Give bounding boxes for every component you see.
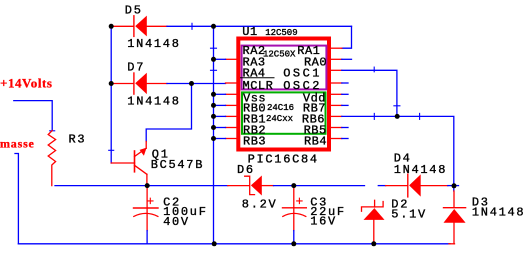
svg-text:U1: U1 [242, 25, 257, 39]
svg-text:5.1V: 5.1V [391, 207, 427, 221]
svg-text:+14Volts: +14Volts [0, 75, 53, 90]
svg-text:40V: 40V [163, 215, 190, 229]
wire D5 cathode to RA1 [167, 25, 352, 27]
svg-text:12C509: 12C509 [265, 28, 297, 38]
svg-text:1N4148: 1N4148 [394, 163, 447, 177]
node RA3 [211, 57, 216, 62]
diode D6 zener 8.2V [228, 163, 278, 212]
wire tick [373, 67, 375, 72]
diode D2 zener 5.1V [362, 197, 427, 244]
pin RB1 (pin 7) [226, 115, 237, 117]
pin RB7 (pin 13) [331, 104, 342, 106]
wire OSC1 net [342, 70, 397, 116]
wire RB3 to bus [214, 138, 226, 140]
wire +14Volts net [14, 101, 52, 131]
wire D4 to node [448, 185, 459, 187]
node RB1 [211, 114, 216, 119]
node D7 cathode [189, 81, 194, 86]
node RB2 [211, 125, 216, 130]
wire RB7 stub [342, 104, 348, 106]
svg-text:24C16: 24C16 [267, 103, 294, 113]
svg-text:8.2V: 8.2V [242, 197, 278, 211]
pin RA0 (pin 17) [331, 58, 342, 60]
node gnd D2 [371, 241, 376, 246]
wire RA3 to bus [214, 58, 226, 60]
svg-text:R3: R3 [69, 133, 87, 147]
capacitor C2 100uF 40V [134, 187, 208, 231]
wire OSC2 stub [342, 82, 348, 84]
wire tick [50, 130, 55, 132]
node gnd bus [212, 241, 217, 246]
pin RB2 (pin 8) [226, 127, 237, 129]
wire RA0 stub [342, 58, 352, 60]
capacitor C3 22uF 16V [283, 187, 346, 231]
pin Vdd (pin 14) [331, 93, 342, 95]
U1 section A box [242, 46, 327, 90]
svg-text:D5: D5 [125, 3, 143, 17]
op-amp U1 PIC16C84 outer box [238, 39, 329, 150]
svg-text:16V: 16V [310, 215, 337, 229]
pin RB3 (pin 9) [226, 138, 237, 140]
node D7 anode [109, 81, 114, 86]
node RB3 [211, 136, 216, 141]
node RB6 junction [395, 114, 400, 119]
wire emitter rail to D6 [147, 185, 228, 187]
svg-text:RB4: RB4 [304, 135, 327, 149]
svg-text:BC547B: BC547B [151, 158, 204, 172]
pin OSC1 (pin 16) [331, 69, 342, 71]
wire Vss to bus [214, 93, 226, 95]
wire C3 to ground rail [293, 231, 295, 244]
wire Q1 collector net [146, 84, 191, 142]
wire C2 to ground rail [146, 231, 148, 244]
wire D5/D7 anode column [110, 26, 112, 163]
pin RB6 (pin 12) [331, 115, 342, 117]
wire tick [373, 113, 375, 119]
pin RB0 (pin 6) [226, 104, 237, 106]
ground rail [18, 243, 450, 245]
resistor R3 [48, 131, 55, 186]
wire D7 cathode to MCLR pin [167, 83, 226, 85]
wire tick [109, 149, 114, 151]
node bus top [211, 24, 216, 29]
wire R3 to emitter rail [55, 185, 147, 187]
svg-text:PIC16C84: PIC16C84 [248, 153, 319, 167]
svg-text:D7: D7 [127, 61, 145, 75]
transistor Q1 BC547B [111, 148, 204, 186]
wire left pin bus column [213, 26, 215, 244]
node RB0 [211, 103, 216, 108]
svg-text:masse: masse [0, 137, 35, 151]
wire tick RA4 [211, 69, 217, 71]
wire masse to ground rail [15, 154, 18, 244]
diode D3 1N4148 [444, 191, 526, 244]
node D4 cathode [452, 183, 457, 188]
pin RA1 (pin 18) [331, 47, 342, 49]
U1 section B box [242, 92, 326, 133]
svg-text:1N4148: 1N4148 [127, 95, 180, 109]
wire RA1 loop [342, 26, 352, 48]
node Vss [211, 92, 216, 97]
svg-text:1N4148: 1N4148 [127, 37, 180, 51]
wire D6 to C3 [274, 185, 365, 187]
wire RB1 to bus [214, 115, 226, 117]
pin RB4 (pin 10) [331, 138, 342, 140]
pin RB5 (pin 11) [331, 127, 342, 129]
wire RB6 net [342, 116, 454, 191]
node emitter [145, 183, 150, 188]
svg-text:12C50X: 12C50X [263, 49, 296, 59]
pin OSC2 (pin 15) [331, 82, 342, 84]
svg-text:1N4148: 1N4148 [472, 205, 525, 219]
wire rail segment right of gap [378, 185, 385, 187]
wire tick RA2 [211, 47, 217, 49]
pin RA3 (pin 2) [226, 58, 237, 60]
diode D7 1N4148 [112, 61, 181, 109]
svg-text:D6: D6 [237, 163, 255, 177]
node D5 anode [109, 24, 114, 29]
wire RB2 to bus [214, 127, 226, 129]
wire RB4 stub [342, 138, 348, 140]
node C3 top [291, 183, 296, 188]
diode D4 1N4148 [386, 152, 448, 197]
pin Vss (pin 5) [226, 93, 237, 95]
wire tick [419, 113, 421, 119]
wire tick [394, 105, 400, 107]
wire Vdd stub [342, 93, 348, 95]
svg-text:RB3: RB3 [243, 135, 266, 149]
wire RB5 stub [342, 127, 348, 129]
svg-text:24Cxx: 24Cxx [266, 114, 293, 124]
node gnd C3 [291, 241, 296, 246]
pin MCLR (pin 4) [226, 82, 237, 84]
diode D5 1N4148 [112, 3, 181, 51]
wire RB0 to bus [214, 104, 226, 106]
wire tick [191, 23, 193, 29]
